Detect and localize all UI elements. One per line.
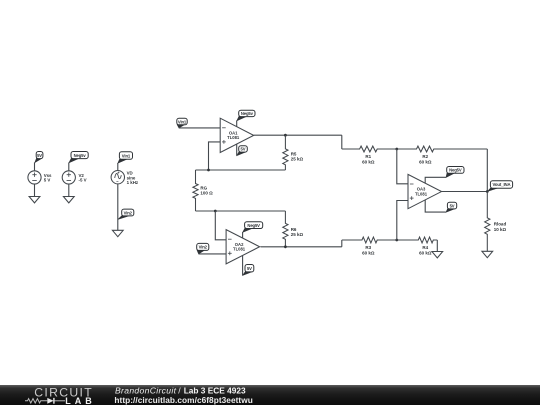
svg-text:R2: R2 (422, 154, 428, 159)
svg-text:5 V: 5 V (44, 178, 51, 183)
svg-text:TL081: TL081 (227, 135, 240, 140)
svg-text:100 Ω: 100 Ω (200, 191, 213, 196)
svg-text:R1: R1 (365, 154, 371, 159)
svg-text:5V: 5V (37, 153, 42, 158)
svg-text:TL081: TL081 (233, 247, 246, 252)
svg-text:60 kΩ: 60 kΩ (362, 160, 375, 165)
svg-text:25 kΩ: 25 kΩ (291, 232, 304, 237)
svg-text:5V: 5V (247, 266, 252, 271)
svg-text:60 kΩ: 60 kΩ (362, 251, 375, 256)
svg-text:5V: 5V (450, 203, 455, 208)
svg-text:R4: R4 (422, 245, 428, 250)
svg-text:25 kΩ: 25 kΩ (291, 157, 304, 162)
svg-text:60 kΩ: 60 kΩ (419, 160, 432, 165)
svg-text:LAB: LAB (65, 395, 92, 405)
svg-text:Neg5V: Neg5V (449, 168, 462, 173)
svg-text:Rload: Rload (494, 221, 507, 226)
svg-text:R3: R3 (365, 245, 371, 250)
svg-text:Lab 3 ECE 4923: Lab 3 ECE 4923 (184, 385, 246, 395)
svg-text:60 kΩ: 60 kΩ (419, 251, 432, 256)
svg-text:5V: 5V (241, 147, 246, 152)
svg-text:Neg5v: Neg5v (74, 153, 87, 158)
svg-text:/: / (178, 385, 181, 395)
svg-text:Vin2: Vin2 (124, 210, 133, 215)
svg-text:Vin1: Vin1 (178, 119, 187, 124)
svg-text:Vin1: Vin1 (122, 153, 131, 158)
svg-text:CIRCUIT: CIRCUIT (34, 385, 92, 399)
svg-text:1 kHz: 1 kHz (127, 180, 139, 185)
svg-text:http://circuitlab.com/c6f8pt3e: http://circuitlab.com/c6f8pt3eettwu (114, 395, 252, 405)
svg-text:BrandonCircuit: BrandonCircuit (115, 385, 177, 395)
svg-text:Neg5v: Neg5v (241, 111, 254, 116)
svg-text:-5 V: -5 V (79, 178, 87, 183)
svg-text:TL081: TL081 (415, 191, 428, 196)
svg-text:10 kΩ: 10 kΩ (494, 227, 507, 232)
svg-text:Vout_INA: Vout_INA (492, 182, 510, 187)
svg-text:Vin2: Vin2 (199, 245, 208, 250)
svg-text:Neg5V: Neg5V (247, 223, 260, 228)
